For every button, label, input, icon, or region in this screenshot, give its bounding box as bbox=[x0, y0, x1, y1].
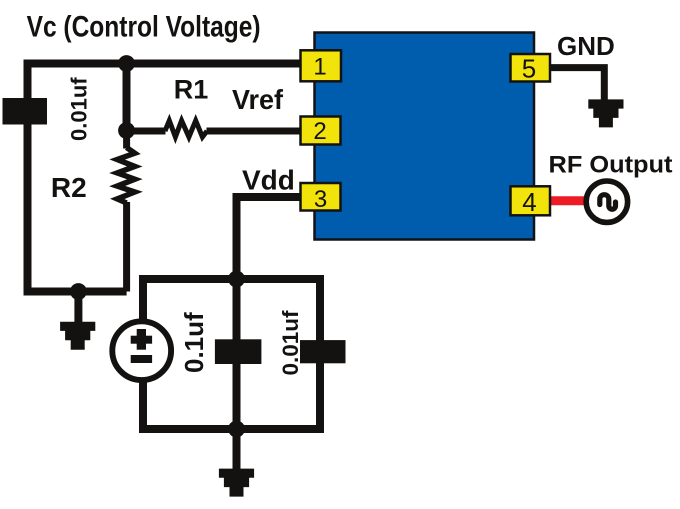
wire GND from pin 5 bbox=[548, 68, 604, 100]
svg-text:4: 4 bbox=[522, 187, 536, 217]
svg-text:0.1uf: 0.1uf bbox=[179, 312, 209, 373]
node B junction dot (R1/R2) bbox=[118, 122, 135, 139]
svg-text:2: 2 bbox=[313, 118, 326, 145]
svg-text:Vdd: Vdd bbox=[242, 164, 295, 195]
pin 1 bbox=[301, 50, 342, 81]
ground (bottom left) bbox=[60, 292, 95, 350]
IC U1 body bbox=[315, 33, 535, 240]
svg-text:R1: R1 bbox=[174, 75, 209, 105]
ground (top right, GND) bbox=[588, 99, 623, 127]
svg-text:3: 3 bbox=[314, 186, 327, 213]
svg-text:5: 5 bbox=[522, 54, 536, 84]
capacitor 0.01uf block (bottom right) bbox=[300, 340, 346, 363]
pin 4 bbox=[511, 186, 551, 217]
resistor R1 (zigzag) with leads to pin 2 bbox=[127, 128, 303, 135]
pin 3 bbox=[301, 183, 341, 213]
node C junction dot (bottom left ground) bbox=[70, 283, 87, 300]
pin 5 bbox=[511, 54, 551, 84]
resistor R2 (vertical zigzag) with leads bbox=[123, 134, 130, 292]
node A junction dot bbox=[118, 55, 135, 72]
svg-text:Vc (Control Voltage): Vc (Control Voltage) bbox=[27, 11, 261, 44]
RF output source symbol (circle with sine) bbox=[586, 181, 627, 222]
node E junction dot (bottom rail ground) bbox=[228, 421, 245, 438]
ground (bottom center) bbox=[219, 429, 254, 497]
wire bottom sub-circuit rails (top rail, right branch, bottom rail) bbox=[143, 279, 320, 429]
wire RF output (red) bbox=[548, 196, 585, 205]
svg-text:0.01uf: 0.01uf bbox=[278, 310, 303, 376]
svg-text:0.01uf: 0.01uf bbox=[67, 77, 92, 141]
pin 2 bbox=[301, 117, 341, 146]
capacitor 0.1uf block bbox=[215, 339, 262, 364]
wire middle branch through capacitor bbox=[233, 279, 241, 429]
battery V1 (circle with plus/minus) bbox=[112, 321, 171, 380]
wire from node A down to node B bbox=[123, 64, 131, 131]
svg-text:RF Output: RF Output bbox=[549, 152, 673, 179]
capacitor C1 0.01uf block (left) bbox=[3, 98, 48, 125]
node D junction dot (Vdd / top rail) bbox=[228, 271, 245, 288]
svg-text:R2: R2 bbox=[51, 172, 87, 203]
wire Vdd: from pin 3 left to corner, down to bottom rail bbox=[237, 197, 303, 279]
svg-text:Vref: Vref bbox=[232, 84, 284, 115]
svg-text:GND: GND bbox=[557, 31, 615, 61]
svg-text:1: 1 bbox=[313, 54, 326, 81]
wire Vc rail: top horizontal, left vertical, bottom-left horizontal bbox=[28, 64, 303, 292]
